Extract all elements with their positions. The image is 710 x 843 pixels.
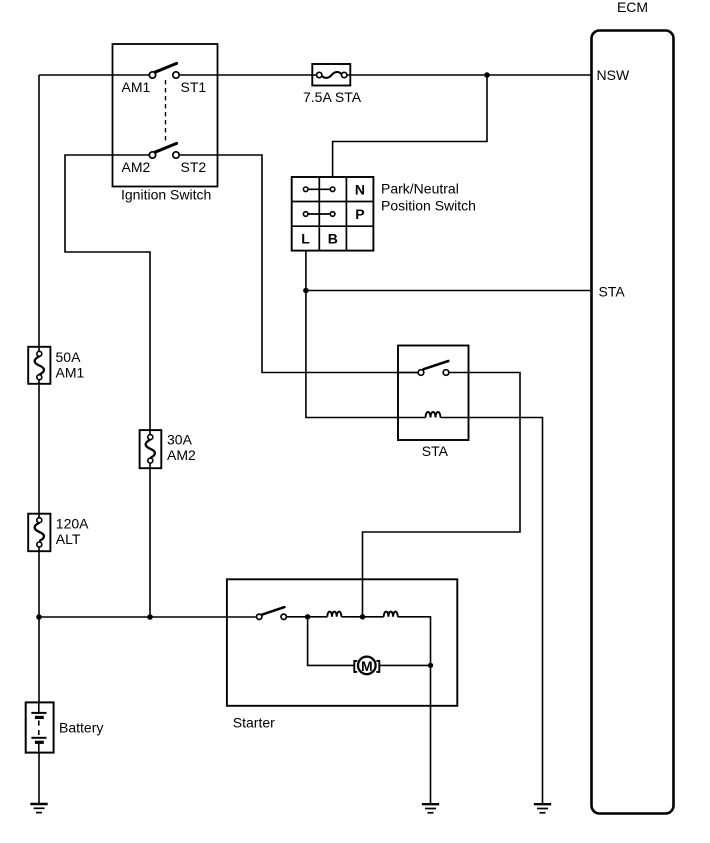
- fuse body outline: [312, 64, 350, 86]
- motor M body circle: [358, 657, 376, 675]
- relay contact left: [418, 370, 424, 376]
- starter assembly: [227, 579, 457, 730]
- ignition switch: [113, 44, 218, 203]
- fuse element S-curve: [35, 523, 44, 541]
- svg-text:ALT: ALT: [56, 531, 81, 547]
- battery BT1: [26, 702, 104, 752]
- svg-text:120A: 120A: [56, 516, 89, 532]
- svg-text:STA: STA: [422, 443, 449, 459]
- relay body outline: [398, 346, 469, 441]
- fuse top terminal: [37, 518, 42, 523]
- svg-text:AM2: AM2: [122, 159, 151, 175]
- grid divider vertical 1: [318, 177, 320, 251]
- fuse bottom terminal: [37, 542, 42, 547]
- wire NSW junction down to park/neutral switch top pin: [333, 75, 487, 178]
- node bottom bus left junction: [36, 614, 42, 620]
- svg-text:7.5A STA: 7.5A STA: [303, 89, 362, 105]
- ganged switch dashed link: [165, 80, 167, 141]
- svg-text:AM1: AM1: [56, 364, 85, 380]
- node starter center junction: [360, 614, 365, 619]
- wire left battery bus (AM1 row to battery and ground): [38, 75, 40, 804]
- fuse 120A ALT: [28, 514, 89, 552]
- terminal AM1 contact: [149, 72, 155, 78]
- switch lever AM2-ST2: [155, 143, 177, 152]
- switch body outline: [292, 177, 374, 251]
- fuse element S-curve: [146, 440, 155, 458]
- ground G3 relay coil: [534, 804, 551, 813]
- wire STA relay coil output to ground G3: [441, 418, 543, 804]
- starter switch contact right: [281, 614, 286, 619]
- wire bottom bus to starter switch: [39, 616, 257, 618]
- svg-text:AM2: AM2: [167, 447, 196, 463]
- wire ST2 to STA relay switch input: [179, 155, 418, 373]
- motor left brush bracket: [354, 661, 357, 672]
- node starter switch-to-coil junction: [305, 614, 310, 619]
- battery negative plate 1: [35, 716, 44, 719]
- svg-text:Starter: Starter: [233, 715, 275, 731]
- node motor output junction: [428, 663, 433, 668]
- svg-text:Park/Neutral: Park/Neutral: [381, 181, 459, 197]
- wire STA net to ECM STA pin: [306, 290, 592, 292]
- node NSW wire junction: [484, 72, 490, 78]
- fuse top terminal: [37, 351, 42, 356]
- svg-text:AM1: AM1: [122, 79, 151, 95]
- starter switch lever: [262, 607, 284, 615]
- grid divider horizontal 2: [292, 225, 374, 227]
- wire starter motor branch: [308, 617, 431, 666]
- wire starter main row and drop to ground G2: [286, 617, 430, 804]
- fuse bottom terminal: [37, 375, 42, 380]
- svg-text:M: M: [361, 658, 373, 674]
- node STA net junction: [303, 288, 309, 294]
- battery body outline: [26, 702, 54, 752]
- svg-text:ST2: ST2: [181, 159, 207, 175]
- relay switch lever: [424, 361, 449, 369]
- svg-text:ST1: ST1: [181, 79, 207, 95]
- grid divider vertical 2: [345, 177, 347, 251]
- relay contact right: [443, 370, 449, 376]
- svg-text:Ignition Switch: Ignition Switch: [121, 187, 211, 203]
- park/neutral position switch: [292, 177, 476, 251]
- ground G1 battery: [30, 804, 47, 813]
- battery positive plate 2: [31, 737, 46, 739]
- terminal ST1 contact: [173, 72, 179, 78]
- wire relay switch input stub: [398, 372, 418, 374]
- solenoid hold-in coil: [384, 612, 398, 617]
- fuse element S-curve: [35, 356, 44, 374]
- solenoid pull-in coil: [327, 612, 341, 617]
- battery internal bottom lead: [38, 742, 40, 752]
- battery internal top lead: [38, 702, 40, 713]
- switch lever AM1-ST1: [155, 63, 177, 72]
- contact bar row N: [306, 188, 333, 190]
- ground G2 starter motor: [422, 804, 439, 813]
- wire AM2 branch through 30A fuse to bottom bus: [65, 155, 150, 617]
- battery negative plate 2: [35, 741, 44, 744]
- fuse 30A AM2: [140, 430, 196, 468]
- fuse 7.5A STA: [303, 64, 362, 105]
- fuse 50A AM1: [28, 347, 84, 384]
- fuse body outline: [28, 347, 50, 384]
- svg-text:N: N: [355, 181, 365, 197]
- ECM body outline: [592, 31, 674, 814]
- contact bar row P: [306, 213, 333, 215]
- ignition switch body outline: [113, 44, 218, 187]
- fuse body outline: [140, 430, 162, 468]
- terminal AM2 contact: [149, 152, 155, 158]
- svg-text:Battery: Battery: [59, 720, 103, 736]
- fuse element wave: [322, 72, 342, 78]
- fuse body outline: [28, 514, 50, 552]
- fuse right terminal: [342, 72, 347, 77]
- node bottom bus AM2 branch junction: [147, 614, 153, 620]
- wire STA relay switch output to starter solenoid junction: [363, 373, 521, 617]
- relay coil: [426, 412, 441, 417]
- svg-text:L: L: [301, 231, 310, 247]
- svg-text:50A: 50A: [56, 349, 82, 365]
- terminal ST2 contact: [173, 152, 179, 158]
- ECM module: [592, 0, 674, 814]
- motor right brush bracket: [376, 661, 379, 672]
- svg-text:Position Switch: Position Switch: [381, 198, 476, 214]
- battery positive plate 1: [31, 712, 46, 714]
- fuse left terminal: [317, 72, 322, 77]
- svg-text:P: P: [355, 206, 364, 222]
- relay STA: [398, 346, 469, 460]
- wire AM1/ST1 row to fuse and ECM NSW pin: [39, 74, 592, 76]
- svg-text:B: B: [328, 231, 338, 247]
- fuse bottom terminal: [148, 458, 153, 463]
- starter switch contact left: [257, 614, 262, 619]
- grid divider horizontal 1: [292, 201, 374, 203]
- fuse top terminal: [148, 435, 153, 440]
- svg-text:ECM: ECM: [617, 0, 648, 15]
- svg-text:30A: 30A: [167, 432, 193, 448]
- svg-text:NSW: NSW: [597, 67, 630, 83]
- wire park/neutral switch L pin to STA relay coil: [306, 251, 426, 418]
- svg-text:STA: STA: [599, 283, 626, 299]
- battery cell dashed link: [38, 721, 40, 736]
- starter body outline: [227, 579, 457, 706]
